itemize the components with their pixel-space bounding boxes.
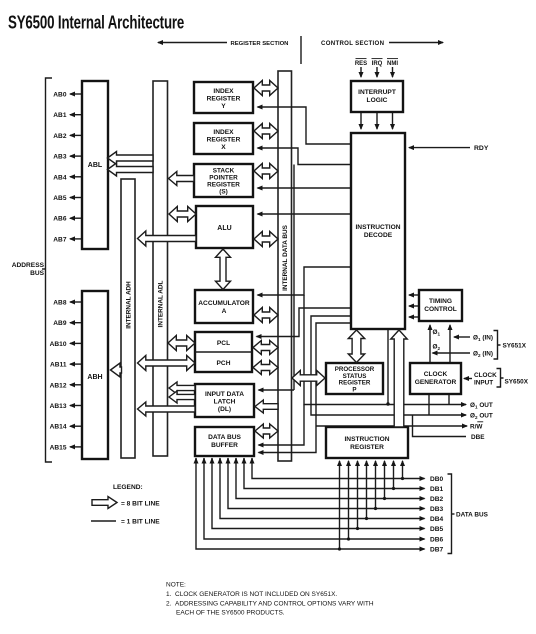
block INSTRUCTION DECODE xyxy=(351,133,405,329)
svg-text:DB6: DB6 xyxy=(430,537,444,544)
wire control rail to PCL and data-bus-buffer xyxy=(257,308,352,337)
svg-text:DB0: DB0 xyxy=(430,476,444,483)
wire control to stack-pointer xyxy=(258,187,352,189)
svg-text:AB9: AB9 xyxy=(53,320,67,327)
svg-text:INTERNAL ADL: INTERNAL ADL xyxy=(158,280,165,327)
legend 1-bit line xyxy=(91,520,116,522)
register ABL xyxy=(82,81,108,249)
wire DB1 xyxy=(244,458,425,489)
svg-text:AB13: AB13 xyxy=(50,403,67,410)
bracket data-bus xyxy=(448,474,452,554)
svg-text:RES: RES xyxy=(355,61,367,67)
wire AB7 xyxy=(70,238,82,240)
wire R/W output xyxy=(316,425,467,427)
wire control to input-data-latch xyxy=(259,389,295,391)
wire AB0 xyxy=(70,93,82,95)
wide-arrow accumulator to data bus xyxy=(254,308,278,323)
svg-text:DB7: DB7 xyxy=(430,547,444,554)
wire instruction-register bit1 xyxy=(393,461,395,489)
wire section divider xyxy=(300,36,302,64)
svg-text:EACH OF THE SY6500 PRODUCTS.: EACH OF THE SY6500 PRODUCTS. xyxy=(176,610,285,617)
wire phi2-in xyxy=(433,352,471,354)
wire DB2 xyxy=(236,458,425,499)
svg-text:AB5: AB5 xyxy=(53,195,67,202)
wire phi1-out rail xyxy=(304,295,466,405)
wide-arrow ALU to accumulator xyxy=(216,249,231,290)
wide-arrow data-bus-buffer to data bus xyxy=(255,424,278,438)
svg-text:CONTROL SECTION: CONTROL SECTION xyxy=(321,40,384,47)
wire control to index-register-Y xyxy=(258,107,352,144)
wide-arrow ADH to ABH xyxy=(111,363,122,377)
wire AB10 xyxy=(70,342,82,344)
register INSTRUCTION REGISTER xyxy=(326,427,408,458)
wire control-section arrow xyxy=(389,42,443,44)
wire AB6 xyxy=(70,217,82,219)
bracket SY650X xyxy=(497,369,504,388)
svg-text:SY651X: SY651X xyxy=(503,343,527,350)
block TIMING CONTROL xyxy=(419,290,462,321)
wire instruction-register bit4 xyxy=(366,461,368,519)
wire AB14 xyxy=(70,425,82,427)
svg-text:PCH: PCH xyxy=(217,360,231,367)
svg-text:ALU: ALU xyxy=(217,225,231,232)
wide-arrow input-data-latch to ADL 2 xyxy=(169,391,195,403)
wire phi2-out rail xyxy=(311,316,466,415)
wire timing-control to decode 1 xyxy=(409,294,419,296)
wire RDY input xyxy=(409,147,470,149)
svg-text:ABH: ABH xyxy=(87,374,102,381)
svg-text:AB2: AB2 xyxy=(53,133,67,140)
wire AB4 xyxy=(70,176,82,178)
svg-text:AB8: AB8 xyxy=(53,300,67,307)
wire interrupt-logic to decode 3 xyxy=(392,112,394,129)
wide-arrow index-register-X to data bus xyxy=(254,124,278,139)
wide-arrow ADL to ABL 1 xyxy=(108,152,154,165)
svg-text:Ø1 (IN): Ø1 (IN) xyxy=(473,335,493,343)
wide-arrow stack-pointer to ADL xyxy=(169,172,195,186)
wire DB6 xyxy=(204,458,425,539)
wire register-section arrow xyxy=(158,42,227,44)
svg-text:AB7: AB7 xyxy=(53,236,67,243)
register INPUT DATA LATCH DL xyxy=(195,384,254,417)
svg-text:TIMINGCONTROL: TIMINGCONTROL xyxy=(424,298,457,313)
wire R/W rail and data-bus-buffer control xyxy=(259,323,352,453)
svg-text:LEGEND:: LEGEND: xyxy=(113,484,143,491)
svg-text:AB11: AB11 xyxy=(50,362,67,369)
block DATA BUS BUFFER xyxy=(195,427,254,456)
wire AB3 xyxy=(70,155,82,157)
svg-text:SY6500 Internal Architecture: SY6500 Internal Architecture xyxy=(8,12,184,33)
wire DB7 xyxy=(196,458,425,549)
wide-arrow PCL to data bus xyxy=(253,341,278,355)
wide-arrow stack-pointer to data bus xyxy=(254,164,278,179)
svg-text:DB4: DB4 xyxy=(430,516,444,523)
svg-text:= 8 BIT LINE: = 8 BIT LINE xyxy=(121,501,160,508)
svg-text:DB3: DB3 xyxy=(430,506,444,513)
wire phi1 line to timing-control xyxy=(449,325,451,363)
svg-text:AB15: AB15 xyxy=(50,444,67,451)
wide-arrow input-data-latch to ADL 1 xyxy=(169,382,195,394)
bus INTERNAL DATA BUS xyxy=(278,71,292,461)
wire IRQ input xyxy=(376,67,378,77)
wide-arrow input-data-latch to ADH xyxy=(138,402,196,416)
svg-text:INTERNAL ADH: INTERNAL ADH xyxy=(126,281,133,329)
register PCL/PCH xyxy=(195,332,252,372)
svg-text:DB2: DB2 xyxy=(430,496,444,503)
wire DB5 xyxy=(212,458,425,529)
bus INTERNAL ADL xyxy=(153,81,168,456)
register PROCESSOR STATUS REGISTER P xyxy=(326,363,383,394)
register STACK POINTER REGISTER S xyxy=(194,164,253,197)
boxes xyxy=(82,81,462,459)
wire decode to phi1-out xyxy=(387,330,389,404)
section header xyxy=(158,36,443,64)
wire address-bus tick xyxy=(42,268,46,270)
svg-text:NMI: NMI xyxy=(387,61,398,67)
svg-text:AB10: AB10 xyxy=(50,341,67,348)
wire AB15 xyxy=(70,446,82,448)
wire control to data-bus-buffer 1 xyxy=(259,405,305,446)
svg-text:INTERNAL DATA BUS: INTERNAL DATA BUS xyxy=(282,224,289,291)
wide-arrow ALU to ADH xyxy=(138,231,197,246)
svg-text:AB0: AB0 xyxy=(53,92,67,99)
wire AB9 xyxy=(70,322,82,324)
buses xyxy=(121,71,292,461)
wire AB11 xyxy=(70,363,82,365)
legend 8-bit-line arrow xyxy=(92,497,117,509)
wire interrupt-logic to decode 1 xyxy=(360,112,362,129)
wire AB8 xyxy=(70,301,82,303)
bus INTERNAL ADH xyxy=(121,179,135,458)
wire instruction-register bit0 xyxy=(402,461,404,479)
wide-arrow ALU to data bus xyxy=(254,232,278,247)
wire timing-control to decode 2 xyxy=(409,305,419,307)
svg-text:RDY: RDY xyxy=(474,145,489,152)
svg-text:DB1: DB1 xyxy=(430,486,444,493)
wide-arrow data bus to input-data-latch xyxy=(255,400,278,413)
wire clock-generator phi2 branch xyxy=(428,394,430,415)
wire instruction-register bit7 xyxy=(339,461,341,549)
wire clock-generator phi1 branch xyxy=(448,394,450,405)
block INTERRUPT LOGIC xyxy=(351,81,403,112)
wire control rail x294 xyxy=(293,165,295,391)
svg-text:ABL: ABL xyxy=(88,162,103,169)
wire instruction-register bit2 xyxy=(384,461,386,499)
svg-text:DATA BUSBUFFER: DATA BUSBUFFER xyxy=(208,434,241,449)
title SY6500 Internal Architecture xyxy=(8,12,184,33)
wire AB1 xyxy=(70,114,82,116)
wire interrupt-logic to decode 2 xyxy=(376,112,378,129)
wire AB2 xyxy=(70,134,82,136)
wire control to accumulator xyxy=(258,267,352,295)
wide-arrow processor-status to data bus xyxy=(292,371,325,386)
svg-text:Ø2 (IN): Ø2 (IN) xyxy=(473,351,493,359)
svg-text:PCL: PCL xyxy=(217,340,230,347)
wire RES input xyxy=(360,67,362,77)
wire timing-control to decode 3 xyxy=(409,316,419,318)
wire instruction-register bit6 xyxy=(348,461,350,539)
svg-text:AB6: AB6 xyxy=(53,216,67,223)
wire control to index-register-X xyxy=(258,148,352,165)
svg-text:NOTE:: NOTE: xyxy=(166,582,186,589)
svg-text:AB3: AB3 xyxy=(53,154,67,161)
bracket SY651X xyxy=(494,331,501,360)
wire AB5 xyxy=(70,197,82,199)
svg-text:SY650X: SY650X xyxy=(505,379,529,386)
block ALU xyxy=(196,206,253,248)
svg-text:IRQ: IRQ xyxy=(372,61,383,67)
register ABH xyxy=(82,291,108,459)
svg-text:REGISTER SECTION: REGISTER SECTION xyxy=(231,41,289,47)
wire AB13 xyxy=(70,405,82,407)
wire instruction-register bit5 xyxy=(357,461,359,529)
svg-text:DATA BUS: DATA BUS xyxy=(456,512,489,519)
wire DB0 xyxy=(252,458,425,479)
svg-text:2. ADDRESSING CAPABILITY AND: 2. ADDRESSING CAPABILITY AND CONTROL OPT… xyxy=(166,601,374,608)
wire control to ALU xyxy=(258,213,352,215)
wide-arrow ALU to ADL xyxy=(169,207,196,222)
wire AB12 xyxy=(70,384,82,386)
svg-text:R/W: R/W xyxy=(470,424,483,431)
svg-text:INSTRUCTIONREGISTER: INSTRUCTIONREGISTER xyxy=(344,436,389,451)
wire instruction-register bit3 xyxy=(375,461,377,509)
wire NMI input xyxy=(392,67,394,77)
wire DB3 xyxy=(228,458,425,509)
wide-arrow PCL to ADL xyxy=(168,336,195,351)
address bus bracket xyxy=(46,78,53,462)
wire phi2 line to timing-control xyxy=(429,325,431,363)
svg-text:DBE: DBE xyxy=(471,434,485,441)
svg-text:Ø1 OUT: Ø1 OUT xyxy=(470,402,493,410)
svg-text:DB5: DB5 xyxy=(430,526,444,533)
node phi1 junction xyxy=(386,402,389,405)
svg-text:AB4: AB4 xyxy=(53,174,67,181)
wide-arrow PCH to data bus xyxy=(253,361,278,375)
svg-text:AB12: AB12 xyxy=(50,382,67,389)
wire DB4 xyxy=(220,458,425,519)
block CLOCK GENERATOR xyxy=(410,363,461,394)
svg-text:Ø2 OUT: Ø2 OUT xyxy=(470,413,493,421)
register INDEX REGISTER X xyxy=(194,123,253,154)
wide-arrow ADL to ABL 2 xyxy=(108,163,154,176)
register INDEX REGISTER Y xyxy=(194,82,253,113)
wide-arrow index-register-Y to data bus xyxy=(254,81,278,96)
wire clock-input xyxy=(464,378,472,380)
wire phi1-in xyxy=(454,336,470,338)
register ACCUMULATOR A xyxy=(195,290,253,323)
svg-text:= 1 BIT LINE: = 1 BIT LINE xyxy=(121,519,160,526)
wire DBE output xyxy=(413,415,467,437)
wide-arrow decode to processor-status xyxy=(348,330,364,363)
svg-text:AB1: AB1 xyxy=(53,112,67,119)
svg-text:AB14: AB14 xyxy=(50,424,67,431)
svg-text:1. CLOCK GENERATOR IS NOT INC: 1. CLOCK GENERATOR IS NOT INCLUDED ON SY… xyxy=(166,591,337,598)
wide-arrow instruction-register to decode xyxy=(391,330,408,427)
wide-arrow PCH to ADH xyxy=(138,356,196,371)
